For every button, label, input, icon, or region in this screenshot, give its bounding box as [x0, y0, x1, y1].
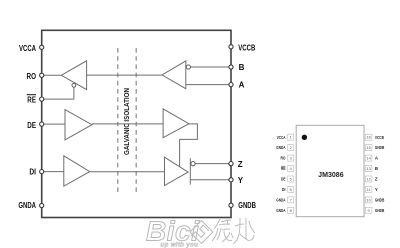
svg-text:Z: Z	[238, 160, 243, 169]
svg-text:DI: DI	[29, 167, 36, 176]
svg-text:B: B	[239, 63, 245, 72]
svg-text:GNDB: GNDB	[375, 145, 384, 150]
svg-text:GNDA: GNDA	[18, 201, 36, 210]
svg-text:1: 1	[290, 135, 292, 140]
svg-text:Z: Z	[375, 177, 378, 182]
svg-text:RO: RO	[27, 72, 37, 81]
svg-text:10: 10	[366, 198, 371, 203]
svg-text:VCCB: VCCB	[375, 135, 384, 140]
svg-text:2: 2	[290, 145, 292, 150]
svg-text:DE: DE	[281, 177, 286, 182]
svg-text:5: 5	[290, 177, 292, 182]
svg-text:13: 13	[366, 166, 370, 171]
svg-text:GNDA: GNDA	[276, 208, 285, 213]
svg-text:7: 7	[290, 198, 292, 203]
svg-text:RE: RE	[281, 166, 286, 171]
svg-text:RE: RE	[27, 95, 36, 104]
svg-text:GNDB: GNDB	[375, 208, 384, 213]
svg-text:GNDB: GNDB	[238, 201, 256, 210]
svg-text:VCCB: VCCB	[238, 44, 255, 53]
svg-text:12: 12	[366, 177, 370, 182]
svg-text:8: 8	[290, 208, 292, 213]
svg-text:JM3086: JM3086	[318, 170, 344, 179]
svg-text:4: 4	[290, 166, 293, 171]
svg-text:GALVANIC ISOLATION: GALVANIC ISOLATION	[124, 88, 131, 155]
svg-text:A: A	[239, 81, 245, 90]
svg-text:6: 6	[290, 187, 292, 192]
svg-text:14: 14	[366, 156, 371, 161]
svg-text:GNDA: GNDA	[276, 198, 285, 203]
svg-text:up with you: up with you	[161, 243, 199, 248]
svg-text:DI: DI	[282, 187, 286, 192]
svg-text:DE: DE	[27, 121, 36, 130]
svg-text:B: B	[375, 166, 378, 171]
svg-text:A: A	[375, 156, 378, 161]
svg-text:15: 15	[366, 145, 370, 150]
svg-text:VCCA: VCCA	[19, 44, 36, 53]
svg-text:GNDB: GNDB	[375, 198, 384, 203]
svg-text:VCCA: VCCA	[277, 135, 286, 140]
svg-text:9: 9	[368, 208, 370, 213]
svg-text:16: 16	[366, 135, 370, 140]
svg-text:3: 3	[290, 156, 292, 161]
svg-text:Y: Y	[238, 176, 244, 185]
svg-text:GNDA: GNDA	[276, 145, 285, 150]
svg-text:11: 11	[367, 187, 371, 192]
svg-text:RO: RO	[281, 156, 287, 161]
svg-text:Y: Y	[375, 187, 378, 192]
